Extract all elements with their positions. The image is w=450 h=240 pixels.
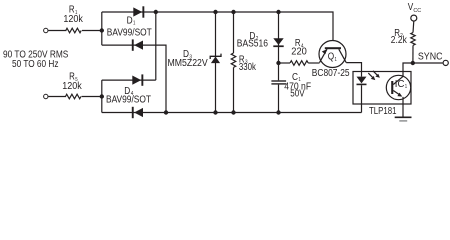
svg-text:50 TO 60 Hz: 50 TO 60 Hz [12,59,59,70]
input terminal bottom [44,94,48,98]
node bottom rail x215 [213,110,217,114]
diode D4 top half [132,74,143,85]
wire top rail [102,12,333,41]
node B [100,94,104,98]
photo base bar [391,81,393,94]
svg-text:BC807-25: BC807-25 [312,68,350,79]
wire bottom rail [102,112,362,114]
svg-text:BAS516: BAS516 [237,38,268,49]
svg-text:BAV99/SOT: BAV99/SOT [107,28,152,39]
terminal VCC [411,15,417,21]
svg-text:120k: 120k [63,14,83,25]
svg-text:220: 220 [291,46,307,57]
diode D2 [273,38,283,47]
svg-text:50V: 50V [290,89,305,100]
wire D1 bottom [102,45,166,112]
resistor R1 [66,28,81,33]
node below D2 [276,61,280,65]
optocoupler box IC1 [353,72,411,105]
svg-text:CC: CC [413,8,421,14]
svg-text:1: 1 [133,21,135,27]
wire photo collector up [403,63,413,76]
resistor R4 [279,62,291,64]
svg-text:330k: 330k [239,62,256,73]
node bottom rail x233 [231,110,235,114]
node bottom rail x278 [276,110,280,114]
wire SYNC [413,62,443,64]
svg-text:BAV99/SOT: BAV99/SOT [106,95,151,106]
svg-text:2.2k: 2.2k [391,35,407,46]
phototransistor circle [386,75,410,99]
svg-text:D: D [127,15,133,26]
ground [395,117,412,121]
svg-text:120k: 120k [62,81,82,92]
wire [82,30,102,32]
resistor R5 [66,94,81,99]
wire [48,30,66,32]
svg-text:IC: IC [395,79,405,90]
transistor Q1 [319,41,346,68]
capacitor C1 [271,63,286,113]
LED inside optocoupler [357,72,367,113]
diode D4 bottom half [132,107,143,118]
wire zener D3 vertical [215,12,217,113]
emitter diagonal [320,49,328,62]
wire D4 top [102,79,156,81]
wire [101,12,103,45]
resistor R3 vertical [233,12,235,53]
node SYNC junction [411,61,415,65]
node top rail x156 [154,10,158,14]
node A [100,28,104,32]
svg-text:TLP181: TLP181 [369,106,397,117]
node bottom rail x166 [164,110,168,114]
base bar [325,47,341,49]
wire Q1 collector to LED [346,63,361,72]
photo emitter arrow [397,93,402,97]
wire [48,96,66,98]
wire node B vertical [101,80,103,112]
node top rail x233 [231,10,235,14]
wire D4 riser to top rail [155,12,157,80]
svg-text:SYNC: SYNC [418,51,443,62]
photo emitter diagonal [393,91,401,96]
input terminal top [44,28,48,32]
zener diode D3 [210,54,221,64]
wire D2 vertical [278,12,280,63]
light arrows [368,71,380,80]
svg-text:MM5Z22V: MM5Z22V [168,58,209,69]
svg-text:1: 1 [405,84,407,90]
node top rail x278 [276,10,280,14]
wire [82,96,103,98]
svg-text:1: 1 [335,57,337,63]
emitter arrow [322,49,327,54]
terminal SYNC [443,60,448,65]
diode D1 bottom half [132,39,143,50]
photo collector diagonal [393,76,403,84]
resistor R2 [412,45,414,63]
diode D1 top half [133,6,144,17]
node top rail x215 [213,10,217,14]
collector diagonal [339,49,346,62]
wire photo emitter down [402,97,404,117]
